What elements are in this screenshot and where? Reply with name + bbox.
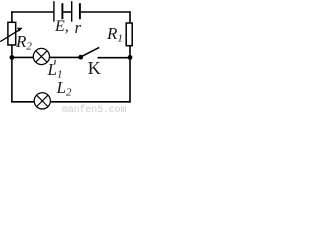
- label r: [75, 19, 82, 36]
- label R1: [107, 25, 123, 45]
- wire bottom-left: [11, 101, 34, 103]
- resistor R2 box: [8, 22, 16, 45]
- label R2: [16, 33, 32, 53]
- lamp L1: [33, 48, 49, 64]
- wire middle-left: [12, 56, 33, 58]
- wire middle lamp to switch: [50, 56, 79, 58]
- wire top-left segment: [11, 11, 53, 13]
- switch K lever: [81, 47, 99, 56]
- resistor R1 box: [126, 23, 132, 46]
- battery cell2 long plate: [71, 1, 73, 22]
- battery cell2 short plate: [79, 3, 81, 19]
- battery cell1 short plate: [61, 3, 63, 19]
- label E,: [55, 19, 69, 35]
- battery E,r cell1 long plate: [53, 1, 55, 22]
- wire top-right segment: [81, 11, 131, 13]
- wire between battery cells: [63, 11, 71, 13]
- resistor R2 arrow: [0, 30, 20, 42]
- lamp L2: [34, 93, 50, 109]
- node junction right: [128, 55, 133, 60]
- wire bottom-right: [50, 101, 130, 103]
- label K: [88, 59, 101, 77]
- watermark manfen5.com: [62, 105, 126, 116]
- wire right rail lower: [129, 46, 131, 102]
- wire switch to right rail: [98, 57, 131, 59]
- switch K pivot node: [78, 55, 83, 60]
- wire right rail upper: [129, 11, 131, 22]
- label L1: [48, 61, 63, 81]
- wire left rail upper: [11, 11, 13, 23]
- wire left rail lower: [11, 45, 13, 103]
- label L1 top tick: [54, 60, 57, 65]
- node junction left: [10, 55, 15, 60]
- label L2: [57, 79, 72, 99]
